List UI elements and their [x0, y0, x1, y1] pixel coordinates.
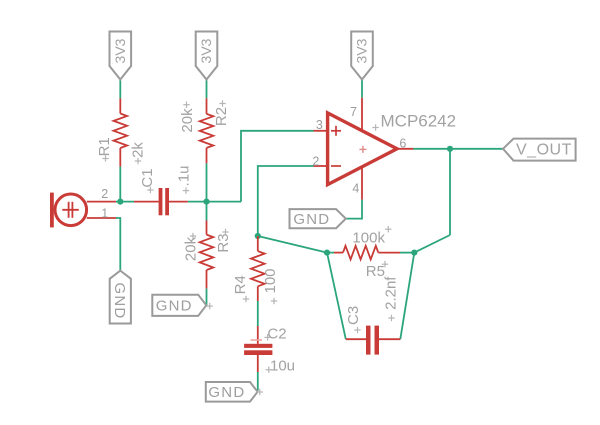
svg-text:GND: GND [111, 283, 128, 320]
svg-text:R2: R2 [213, 107, 230, 126]
svg-text:100k: 100k [352, 229, 385, 246]
svg-text:R5: R5 [366, 263, 385, 280]
svg-text:.1u: .1u [175, 166, 192, 187]
svg-text:R3: R3 [215, 233, 232, 252]
svg-text:4: 4 [352, 181, 359, 195]
svg-text:MCP6242: MCP6242 [381, 111, 457, 130]
svg-text:3: 3 [316, 118, 323, 132]
svg-text:2.2nf: 2.2nf [382, 276, 399, 310]
svg-text:GND: GND [293, 211, 330, 228]
svg-text:3V3: 3V3 [354, 38, 370, 63]
svg-text:2: 2 [312, 154, 319, 168]
svg-text:C1: C1 [139, 168, 156, 187]
svg-text:R1: R1 [96, 137, 113, 156]
svg-text:V_OUT: V_OUT [516, 141, 572, 158]
svg-text:100: 100 [262, 268, 279, 293]
svg-text:7: 7 [350, 105, 357, 119]
svg-text:GND: GND [156, 298, 193, 315]
svg-text:10u: 10u [270, 357, 295, 374]
svg-text:GND: GND [208, 384, 245, 401]
svg-text:2: 2 [101, 187, 108, 201]
svg-text:1: 1 [101, 207, 108, 221]
svg-text:3V3: 3V3 [112, 38, 128, 63]
svg-text:C2: C2 [267, 325, 286, 342]
svg-text:C3: C3 [345, 306, 362, 325]
svg-text:6: 6 [399, 137, 406, 151]
svg-text:20k: 20k [179, 108, 196, 133]
svg-text:20k: 20k [182, 236, 199, 261]
svg-text:R4: R4 [232, 275, 249, 294]
svg-text:2k: 2k [129, 142, 146, 158]
svg-text:3V3: 3V3 [198, 38, 214, 63]
